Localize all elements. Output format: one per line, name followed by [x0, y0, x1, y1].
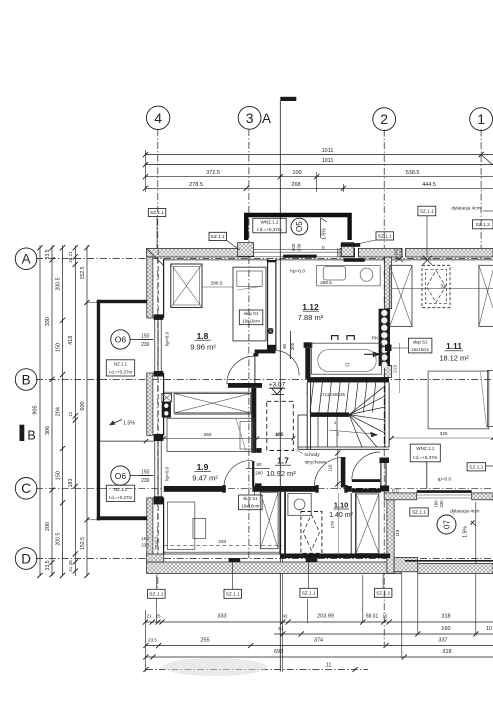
annex top wall thick [97, 300, 147, 303]
svg-text:SZ.1.2: SZ.1.2 [476, 222, 490, 228]
svg-text:1011: 1011 [322, 148, 334, 154]
svg-text:SZ.1.1: SZ.1.1 [226, 591, 240, 597]
bathroom top window break slots [354, 248, 356, 257]
svg-text:D: D [21, 551, 31, 566]
stairs walk line with arrow [329, 430, 373, 434]
WNZ.1.1 label box [410, 444, 440, 462]
svg-text:16x16cm: 16x16cm [411, 347, 429, 352]
svg-text:200.5: 200.5 [55, 532, 61, 545]
slup S1 label box (1.11) [408, 338, 432, 353]
svg-text:r.d.=+5,37m: r.d.=+5,37m [413, 455, 438, 460]
svg-text:B: B [22, 372, 31, 387]
wardrobe X in 1.10 [356, 494, 379, 554]
bottom extension line at x=417.8 [417, 573, 419, 635]
top dimension row 3 (372.5 / 100 / 538.5) [145, 176, 493, 178]
svg-text:230: 230 [141, 342, 150, 348]
svg-text:230: 230 [297, 243, 302, 251]
svg-text:255: 255 [200, 638, 209, 644]
svg-text:PK: PK [372, 336, 379, 342]
SZ.1.1 box top middle [209, 232, 227, 240]
wardrobe X in 1.11 east (cut) [479, 265, 493, 326]
svg-text:O5: O5 [295, 221, 304, 232]
svg-text:1: 1 [477, 111, 485, 127]
svg-text:21: 21 [395, 488, 400, 493]
top wall corner mitre line [147, 248, 164, 265]
svg-text:9.47 m²: 9.47 m² [192, 474, 218, 483]
section marker B at left [20, 425, 25, 441]
slup S1 column black square at 1.8 wall [268, 328, 274, 334]
svg-text:418: 418 [68, 336, 74, 345]
svg-text:15: 15 [383, 614, 388, 619]
lower left window O6 frame [154, 441, 156, 497]
svg-text:słup S1: słup S1 [243, 496, 258, 501]
svg-text:07: 07 [442, 520, 451, 529]
wall between 1.8 and bathroom (double line) [267, 259, 269, 350]
grid bubble 2 [373, 108, 396, 131]
svg-text:296.5: 296.5 [211, 281, 223, 287]
grid line D (horizontal dash-dot) [36, 558, 493, 560]
1.8 door closed leaf line [254, 356, 256, 383]
dashed attic hatch with diamond [301, 512, 322, 554]
slup S1 16x16 label box (bathroom) [239, 310, 262, 325]
bed in 1.11 (large, cut at right) [428, 371, 489, 429]
grid line C (horizontal dash-dot) [36, 487, 493, 489]
svg-text:1.12: 1.12 [302, 302, 319, 312]
svg-text:NZ.1.1: NZ.1.1 [114, 487, 128, 492]
door 1.10 jamb caps [315, 485, 318, 493]
1.10 door leaf + arc [341, 457, 346, 488]
svg-text:230: 230 [398, 248, 403, 256]
bathtub [311, 343, 381, 374]
svg-text:3: 3 [246, 110, 254, 126]
grid line 4 (vertical dash-dot) [157, 129, 159, 588]
rooms inner face line below top wall [164, 259, 268, 261]
svg-text:600: 600 [80, 401, 86, 410]
svg-text:278.5: 278.5 [189, 182, 203, 188]
svg-text:A: A [262, 111, 271, 126]
bathroom door swing arc [275, 350, 299, 375]
svg-text:WNZ.1.1: WNZ.1.1 [416, 446, 435, 451]
desk with X in 1.9 north (long) [174, 393, 251, 413]
svg-text:C: C [21, 481, 31, 496]
svg-text:1.7: 1.7 [277, 456, 289, 466]
slup S1 label box (1.9) [239, 495, 263, 510]
svg-text:306: 306 [45, 426, 51, 435]
grid line 1 (vertical dash-dot) [480, 130, 482, 259]
SZ.1.1 box dylatacja [410, 508, 429, 516]
svg-text:SZ.1.1: SZ.1.1 [211, 234, 225, 240]
lintel X mark on top wall at 395 [395, 256, 403, 262]
diagonal leader top right [481, 155, 493, 165]
svg-text:.11: .11 [325, 663, 332, 669]
grid line 3 (vertical dash-dot) [248, 129, 250, 558]
bed in 1.8 (vertical) [233, 267, 266, 341]
svg-text:1.9: 1.9 [197, 462, 209, 472]
top dimension row 4 (278.5 / 268 / 444.5) [145, 187, 493, 189]
1.11 south window sill black bar [417, 490, 472, 493]
hall nook top wall bar [255, 350, 276, 354]
svg-text:hp=0.0: hp=0.0 [164, 466, 169, 481]
svg-text:183: 183 [68, 479, 74, 488]
svg-text:25 21: 25 21 [68, 251, 73, 263]
svg-text:1.8: 1.8 [197, 331, 209, 341]
SZ.1.1 box top left at grid 4 [148, 208, 166, 216]
svg-text:230: 230 [439, 500, 444, 508]
svg-text:10: 10 [486, 626, 492, 632]
SZ.1.1 box bottom left [148, 589, 166, 598]
wall corner stub at 1.9 door hinge [256, 448, 261, 453]
bottom extension line at x=362.8 [362, 575, 364, 623]
upper left window O6 frame [154, 318, 156, 373]
bottom extension line at x=307.5 [307, 599, 309, 623]
annex left wall thick [97, 300, 100, 521]
east interior wall of bathroom/1.11 hatched [385, 257, 392, 309]
dashed dim 333 in 1.9 [164, 544, 282, 546]
bottom dimension row 4 (693/318) [146, 656, 493, 658]
svg-text:1011: 1011 [322, 158, 334, 164]
left wall inner face line [163, 259, 165, 318]
bottom wall window sill marks [229, 558, 241, 562]
bottom dimension row 3 (23.5/255/374/337) [146, 645, 493, 647]
bathroom toilet bowl oval [360, 268, 373, 281]
svg-text:hp=0.0: hp=0.0 [290, 269, 305, 275]
bottom wall inner face line [164, 553, 281, 555]
small X box left of desk [162, 393, 172, 402]
svg-text:150: 150 [141, 469, 150, 475]
upper left window jamb blocks [154, 314, 164, 320]
svg-text:10.92 m²: 10.92 m² [266, 469, 296, 478]
bottom exterior wall hatched band [147, 562, 402, 574]
stairwell right wall double line [384, 382, 386, 447]
svg-text:230: 230 [141, 543, 149, 548]
svg-text:325: 325 [440, 431, 448, 437]
lower left window jamb blocks [154, 434, 164, 441]
svg-text:203.99: 203.99 [317, 614, 334, 620]
top exterior wall hatched band [147, 248, 251, 257]
1.9 door dim 80/200 [246, 467, 270, 469]
SZ.1.1 box bottom fourth [374, 588, 392, 597]
svg-text:O6: O6 [115, 471, 127, 481]
SZ.1.1 box in 1.11 [467, 463, 486, 471]
window bubble O7 rotated [437, 515, 456, 534]
svg-text:2: 2 [380, 111, 388, 127]
svg-text:160: 160 [441, 626, 450, 632]
dashed opening rect 105 (floor hatch) [267, 401, 294, 450]
svg-text:33.5: 33.5 [45, 249, 51, 259]
1.8 door leaf open (thick bar) [228, 383, 262, 388]
window bubble O6 lower [111, 466, 130, 485]
watermark smudge [163, 658, 267, 676]
left dim line x=52 (33.5/330/306/200/33.5) [51, 246, 53, 577]
knee wall line across 1.11 [392, 288, 493, 290]
leader WNZ.1.1 to window [426, 462, 428, 489]
grid bubble A [15, 248, 37, 270]
1.9 door right jamb [255, 483, 262, 490]
top dimension row 2 (1011) [145, 164, 493, 166]
bathroom SW corner wall piece with jamb cap [304, 342, 313, 348]
svg-text:905: 905 [33, 405, 39, 414]
svg-text:333: 333 [217, 614, 226, 620]
svg-text:100: 100 [291, 243, 296, 251]
svg-text:110: 110 [328, 464, 333, 472]
grid line B (horizontal dash-dot) [36, 379, 493, 381]
svg-text:330: 330 [45, 317, 51, 326]
bottom extension line at x=282.7 [282, 557, 284, 672]
annex slope arrow 1.5% [111, 420, 123, 425]
svg-text:słup S1: słup S1 [413, 339, 428, 344]
NZ.1.1 label box upper [106, 360, 134, 376]
SZ.1.2 box top right edge [473, 220, 493, 229]
SZ.1.1 box bottom second [224, 589, 242, 598]
skylight dashed in 1.11 [422, 265, 450, 307]
bathroom door dim line 80/200 rotated [289, 331, 291, 359]
svg-text:1.11: 1.11 [446, 341, 462, 351]
bathroom window black bar above wall [341, 243, 361, 247]
grid bubble 4 [146, 106, 169, 129]
svg-text:SZ.1.1: SZ.1.1 [150, 210, 164, 216]
top dims extension line left [144, 150, 146, 192]
top dims extension at 349.1 [342, 184, 344, 192]
svg-text:1.5%: 1.5% [322, 228, 328, 240]
svg-text:dylatacja 4cm: dylatacja 4cm [451, 206, 480, 212]
wall end cap at bathroom door [267, 345, 276, 350]
PK plumbing shaft (black with pipes) [379, 309, 390, 366]
svg-text:strychowe: strychowe [305, 460, 327, 466]
NZ.1.1 label box lower [106, 485, 134, 501]
window bubble O6 upper [111, 330, 130, 349]
svg-text:150: 150 [141, 536, 149, 541]
svg-text:372.5: 372.5 [206, 170, 220, 176]
left dim line x=87 (152.5/600/152.5) [86, 246, 88, 577]
south wall piece right of 1.10 door [352, 489, 381, 493]
door 1.9 left jamb cap [222, 485, 225, 493]
bottom dimension row 2 (51/160/108) [274, 633, 493, 635]
svg-text:337: 337 [438, 638, 447, 644]
left wall roof overhang dashed line [157, 250, 159, 563]
dylatacja section bottom wall hatched [418, 564, 493, 574]
svg-text:21: 21 [146, 614, 152, 619]
svg-text:152.5: 152.5 [80, 537, 86, 550]
bathroom vanity counter [317, 266, 381, 286]
svg-text:hp=0.0: hp=0.0 [164, 331, 169, 346]
grid bubble 1 [470, 108, 493, 131]
bathroom washbasin [323, 267, 345, 280]
niche side hatched blocks [238, 243, 254, 257]
svg-text:33.5: 33.5 [45, 560, 51, 570]
svg-text:119: 119 [395, 529, 400, 536]
radiator black box with two dots [162, 402, 171, 418]
annex bottom wall thick [97, 516, 147, 520]
svg-text:21 25: 21 25 [68, 560, 73, 572]
svg-text:318: 318 [442, 649, 451, 655]
svg-text:105: 105 [275, 432, 283, 438]
svg-text:444.5: 444.5 [422, 182, 436, 188]
svg-text:16x16cm: 16x16cm [241, 504, 259, 509]
1.8 east door stub [253, 353, 258, 356]
1.11 south window frame lines [417, 494, 472, 496]
svg-text:298.5: 298.5 [320, 280, 332, 285]
dylatacja section west wall hatched [387, 500, 394, 573]
svg-text:258: 258 [203, 432, 211, 438]
O6 lower leader line [130, 475, 154, 477]
bottom extension line at x=401.8 [401, 573, 403, 658]
desk in 1.9 [167, 502, 194, 549]
svg-text:374: 374 [314, 638, 323, 644]
washing machine [288, 494, 311, 516]
svg-text:O6: O6 [115, 335, 127, 345]
svg-text:538.5: 538.5 [406, 170, 420, 176]
wall south of hall 1.7 with 1.9 and 1.10 doors [164, 486, 225, 492]
svg-text:318: 318 [441, 614, 450, 620]
grid bubble C [15, 478, 37, 500]
1.8 door leaf open line [227, 383, 255, 385]
wardrobe X in 1.9 east [260, 492, 278, 549]
O6 upper leader line [130, 339, 154, 341]
bottom-left corner hatched block [147, 554, 164, 562]
svg-text:268: 268 [291, 182, 300, 188]
arrow pointing to PK shaft [364, 353, 379, 355]
svg-text:dylatacja 4cm: dylatacja 4cm [450, 509, 479, 515]
svg-text:17x18,06x26: 17x18,06x26 [320, 392, 346, 397]
svg-text:r.d.=+5,37m: r.d.=+5,37m [257, 227, 282, 232]
left dim line x=62.6 (200.5/150/204/150/200.5) [62, 246, 64, 577]
svg-text:1.10: 1.10 [334, 501, 349, 510]
svg-text:150: 150 [141, 333, 150, 339]
svg-text:100: 100 [292, 170, 301, 176]
wall east of 1.10 zone [350, 493, 352, 554]
bottom extension line at x=475.8 [475, 502, 477, 635]
grid bubble 3 [238, 106, 261, 129]
grid bubble D [15, 548, 37, 570]
1.10 door dim line 110 rotated [337, 449, 339, 489]
1.9 door closed leaf + arc [252, 461, 254, 486]
svg-text:150: 150 [55, 343, 61, 352]
1.8 door swing arc [227, 356, 255, 384]
bed blanket fold line 1.11 [481, 372, 487, 428]
svg-text:schody: schody [304, 452, 320, 458]
stairs top wall (bathroom south wall) [307, 377, 389, 382]
niche window sill black bar [283, 255, 317, 258]
svg-text:1.40 m²: 1.40 m² [329, 512, 353, 519]
svg-text:18.12 m²: 18.12 m² [439, 354, 469, 363]
svg-text:32: 32 [440, 284, 446, 290]
SZ.1.1 box top at bathroom [376, 232, 394, 240]
left dims bottom extension at x=145.4 [144, 610, 146, 672]
stairs upper treads [310, 382, 314, 412]
left exterior wall hatched band [147, 257, 153, 318]
svg-text:213: 213 [392, 365, 397, 373]
svg-text:693: 693 [274, 649, 283, 655]
wall between 1.9 and 1.10 (double black) [279, 492, 281, 554]
bathroom window black sill bar below wall [344, 258, 365, 262]
SZ.1.1 box top right [418, 206, 436, 216]
svg-text:r.d.=+5,37m: r.d.=+5,37m [109, 495, 133, 500]
section line A vertical [279, 101, 281, 672]
svg-text:58.01: 58.01 [366, 614, 379, 620]
dormer niche walls (thick black, open bottom) [246, 215, 349, 240]
svg-text:9.96 m²: 9.96 m² [190, 343, 216, 352]
grid line A (horizontal dash-dot) [36, 258, 493, 260]
svg-text:80: 80 [256, 462, 262, 467]
internal dim line 258 / 105 [164, 437, 293, 439]
svg-text:25: 25 [321, 245, 326, 250]
top dims extension at 316.7 [316, 172, 318, 192]
1.10 internal dim 179 rotated [337, 493, 339, 556]
top dimension row 1 (1011) [145, 154, 493, 156]
wardrobe with X in 1.8 (top left) [171, 264, 202, 308]
svg-text:333: 333 [218, 539, 226, 545]
svg-text:SZ.1.1: SZ.1.1 [149, 591, 163, 597]
stairwell left wall double line [306, 382, 308, 449]
slup S1 column black square at 1.11 wall [385, 345, 392, 352]
svg-text:7.88 m²: 7.88 m² [298, 313, 324, 322]
svg-text:SZ.1.1: SZ.1.1 [378, 234, 392, 240]
bed in 1.9 (horizontal) [167, 418, 254, 451]
grid line 2 (vertical dash-dot) [383, 130, 385, 646]
WNZ.1.2 window label box [253, 218, 286, 233]
leader from slup box to column [392, 347, 408, 349]
svg-text:NZ.1.1: NZ.1.1 [114, 361, 128, 366]
grid bubble B [15, 369, 37, 391]
svg-text:42: 42 [282, 614, 288, 619]
dim 325 in 1.11 [392, 437, 493, 439]
svg-text:150: 150 [55, 471, 61, 480]
vanity dim 298.5 [317, 285, 379, 287]
bed headboard 1.11 (cut at edge) [487, 370, 493, 426]
svg-text:51: 51 [278, 626, 284, 632]
south wall of room 1.7 hatched (right section) [384, 493, 417, 500]
svg-text:SZ.1.1: SZ.1.1 [420, 209, 434, 215]
svg-text:16x16cm: 16x16cm [242, 319, 260, 324]
wardrobe X in 1.11 west [390, 265, 412, 326]
1.11 door leaf open bar + arc [352, 479, 380, 482]
svg-text:23.5: 23.5 [148, 638, 157, 643]
svg-text:204: 204 [55, 407, 61, 416]
left dim line x=75.3 (25/21/418/12/21/25) [74, 246, 76, 577]
svg-text:WNZ.1.2: WNZ.1.2 [260, 220, 279, 225]
stairs bottom boundary double line [298, 446, 389, 448]
svg-text:SZ.1.1: SZ.1.1 [302, 590, 316, 596]
wall piece below PK shaft [385, 366, 392, 378]
svg-text:200: 200 [255, 471, 263, 476]
wall between hall and 1.11 (double line w cap) [380, 460, 382, 487]
annex dim extension stubs [87, 301, 99, 303]
svg-text:200: 200 [45, 522, 51, 531]
svg-text:12: 12 [68, 411, 73, 417]
svg-text:r.d.=+5,37m: r.d.=+5,37m [109, 369, 133, 374]
svg-text:4: 4 [154, 110, 162, 126]
svg-text:152.5: 152.5 [80, 266, 86, 279]
dim 296.5 in room 1.8 [202, 286, 233, 288]
lintel X mark on top wall right [423, 256, 432, 265]
svg-text:1.5%: 1.5% [463, 526, 469, 538]
svg-text:160: 160 [434, 500, 439, 508]
section marker A flag at top [280, 97, 296, 101]
left dim line x=40 (905) [39, 246, 41, 577]
svg-text:hp=0.0: hp=0.0 [154, 536, 159, 550]
1.10 bottom wall thick bar [280, 554, 390, 559]
bracket marks above bathtub [332, 336, 338, 340]
SZ.1.1 box bottom third [300, 588, 318, 597]
dylatacja jog hatched [394, 557, 418, 571]
niche window opening frame lines (top wall) [250, 248, 340, 250]
svg-text:80: 80 [282, 343, 287, 348]
svg-text:B: B [27, 429, 35, 443]
svg-text:+3.07: +3.07 [269, 381, 286, 388]
annex mid line [97, 440, 154, 442]
svg-text:SZ.1.1: SZ.1.1 [376, 590, 390, 596]
dim 213 rotated in 1.11 [399, 343, 401, 393]
